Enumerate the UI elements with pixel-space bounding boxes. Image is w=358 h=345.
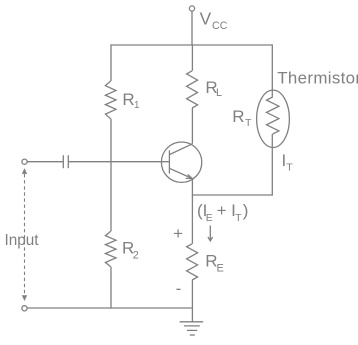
svg-text:): ): [243, 201, 249, 220]
transistor Q1 (NPN): [161, 142, 201, 182]
wire RL top lead: [191, 44, 193, 70]
label RL: [205, 78, 222, 99]
svg-text:E: E: [206, 212, 213, 224]
label R1: [122, 90, 139, 111]
power terminal Vcc: [189, 6, 194, 45]
wire top rail to thermistor: [271, 44, 273, 97]
svg-text:+: +: [173, 224, 183, 243]
svg-text:-: -: [176, 279, 182, 298]
resistor R2: [105, 231, 116, 266]
svg-text:T: T: [235, 212, 242, 224]
label (IE + IT): [197, 201, 248, 224]
svg-text:T: T: [245, 117, 252, 129]
label RT: [232, 107, 252, 129]
wire top supply rail: [111, 44, 272, 46]
svg-text:Thermistor: Thermistor: [277, 68, 358, 87]
wire emitter down: [191, 179, 193, 244]
label RE: [205, 252, 224, 275]
input terminal lower: [22, 306, 27, 311]
wire RE bottom lead: [191, 280, 193, 308]
svg-text:V: V: [200, 9, 212, 29]
resistor RE: [187, 244, 198, 280]
wire R2 bottom lead: [110, 267, 112, 309]
wire thermistor bottom lead: [271, 134, 273, 195]
wire capacitor to transistor base: [68, 161, 169, 163]
thermistor RT: [257, 90, 290, 147]
svg-text:T: T: [286, 161, 293, 173]
label Vcc: [200, 9, 228, 32]
input terminal upper: [22, 159, 27, 164]
svg-text:L: L: [216, 87, 222, 99]
ground: [180, 308, 204, 335]
wire bottom rail: [27, 307, 192, 309]
label R2: [122, 238, 139, 261]
svg-text:Input: Input: [5, 232, 40, 249]
input span dashed arrow: [22, 168, 27, 301]
svg-text:CC: CC: [212, 20, 228, 32]
wire R1 bottom to base junction to R2 top: [110, 119, 112, 232]
wire input to capacitor: [27, 161, 63, 163]
capacitor (coupling): [63, 155, 68, 168]
resistor RL: [187, 71, 198, 108]
wire thermistor to emitter node: [192, 194, 273, 196]
wire RL bottom to collector: [191, 108, 193, 144]
svg-text:R: R: [122, 90, 134, 109]
current arrow IE+IT: [208, 226, 213, 241]
resistor R1: [105, 81, 116, 119]
svg-text:E: E: [217, 263, 224, 275]
svg-text:R: R: [232, 107, 244, 126]
svg-text:2: 2: [133, 249, 139, 261]
wire R1 top lead: [110, 44, 112, 81]
label IT: [282, 151, 294, 174]
svg-text:+: +: [217, 201, 227, 220]
svg-text:1: 1: [134, 100, 139, 111]
